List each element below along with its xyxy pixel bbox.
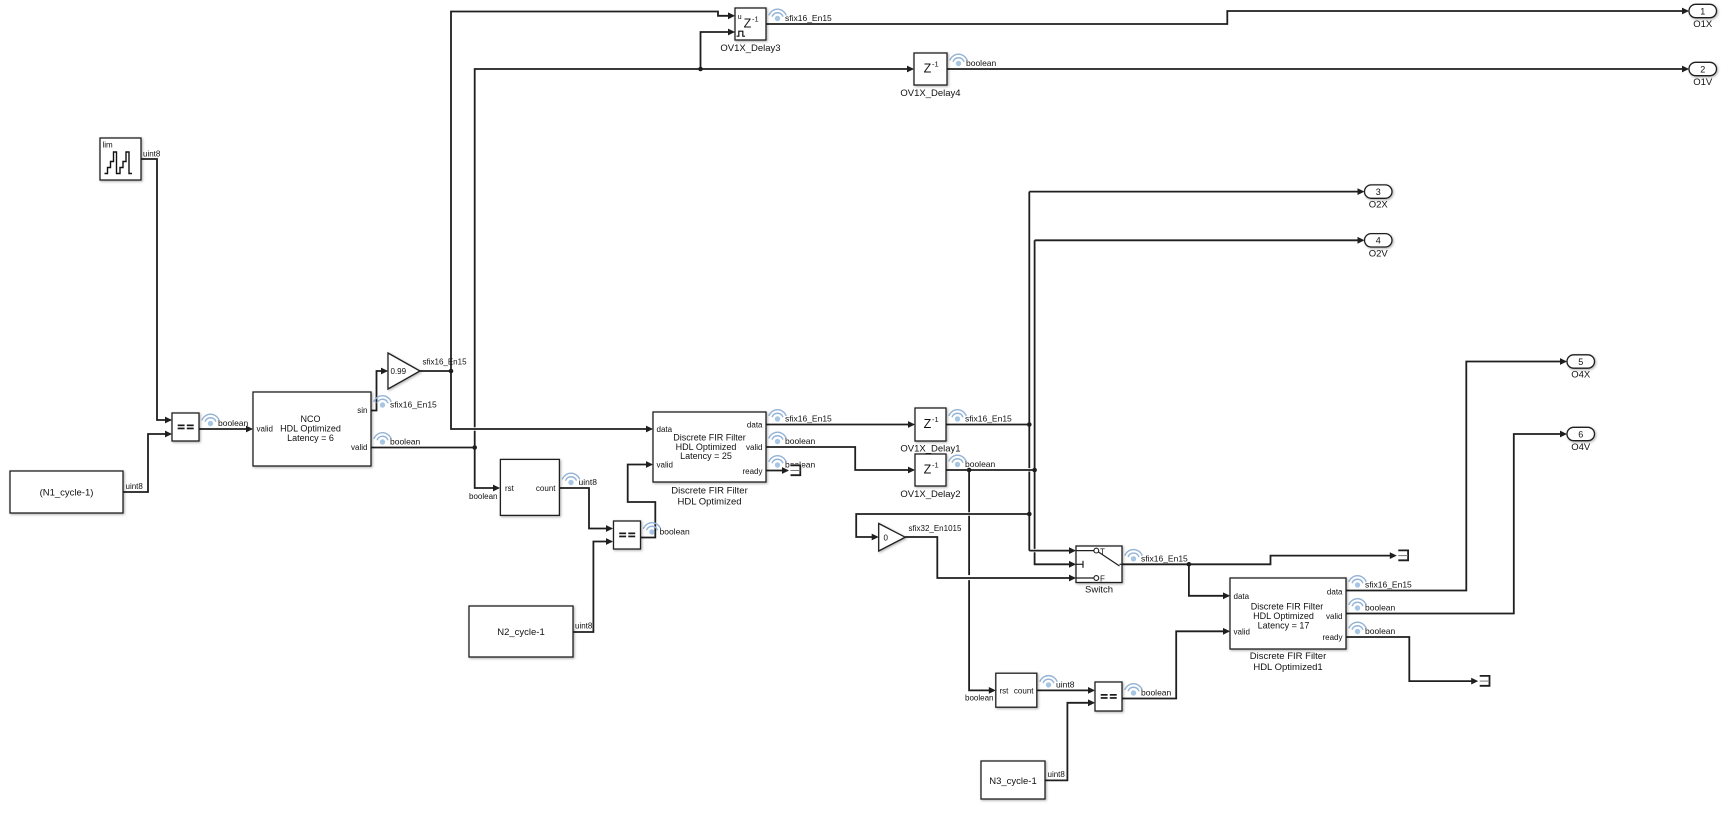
svg-text:Latency = 25: Latency = 25 [680, 451, 732, 461]
source block lim (counter limited) [100, 138, 141, 180]
wire lim output to compare EQ1 input 1 (uint8) [141, 150, 172, 424]
svg-text:sfix32_En1015: sfix32_En1015 [909, 524, 962, 533]
svg-text:ready: ready [1322, 633, 1342, 642]
wire gain G1 output sfix16_En15 net to OV1X_Delay3 u and FIR1 data [420, 12, 735, 433]
svg-text:0: 0 [884, 534, 889, 543]
svg-text:uint8: uint8 [579, 477, 598, 487]
svg-text:uint8: uint8 [1056, 680, 1075, 690]
svg-text:sfix16_En15: sfix16_En15 [1365, 580, 1412, 590]
svg-text:F: F [1100, 575, 1105, 584]
svg-text:OV1X_Delay3: OV1X_Delay3 [720, 43, 780, 54]
svg-text:OV1X_Delay4: OV1X_Delay4 [900, 88, 960, 99]
output port 2 O1V [1682, 62, 1717, 88]
svg-text:boolean: boolean [1365, 626, 1396, 636]
output port 1 O1X [1682, 4, 1717, 30]
svg-text:HDL Optimized: HDL Optimized [280, 424, 341, 434]
wire constant N3 to compare EQ3 input 2 (uint8) [1045, 699, 1095, 780]
svg-text:2: 2 [1700, 64, 1705, 74]
svg-text:sin: sin [357, 406, 367, 415]
label under FIR2 block [1250, 651, 1327, 673]
svg-text:Discrete FIR Filter: Discrete FIR Filter [1250, 651, 1327, 662]
label under OV1X_Delay4 [900, 88, 960, 99]
svg-text:boolean: boolean [965, 694, 993, 703]
wire FIR2 valid output boolean to output port 6 O4V [1346, 434, 1566, 614]
svg-text:data: data [657, 425, 673, 434]
delay block OV1X_Delay2 [915, 454, 946, 486]
svg-text:uint8: uint8 [1048, 770, 1066, 779]
svg-text:sfix16_En15: sfix16_En15 [785, 414, 832, 424]
svg-text:5: 5 [1578, 357, 1583, 367]
svg-text:HDL Optimized1: HDL Optimized1 [1253, 662, 1322, 673]
svg-text:count: count [536, 484, 556, 493]
switch block [1076, 546, 1122, 584]
svg-text:Discrete FIR Filter: Discrete FIR Filter [1251, 601, 1324, 611]
svg-text:(N1_cycle-1): (N1_cycle-1) [40, 488, 94, 499]
svg-text:data: data [747, 421, 763, 430]
svg-text:boolean: boolean [1365, 603, 1396, 613]
svg-text:valid: valid [657, 461, 673, 470]
svg-text:boolean: boolean [966, 58, 997, 68]
svg-text:sfix16_En15: sfix16_En15 [965, 414, 1012, 424]
wire counter2 count uint8 to compare EQ3 input 1 [1037, 676, 1095, 694]
svg-text:valid: valid [1326, 612, 1342, 621]
wire compare EQ3 output boolean to FIR2 valid input [1122, 628, 1230, 699]
svg-text:count: count [1014, 687, 1034, 696]
svg-text:NCO: NCO [301, 414, 321, 424]
svg-text:Z: Z [924, 417, 932, 431]
compare-to-constant block EQ2 == [614, 521, 641, 549]
output port 3 O2X [1358, 185, 1393, 211]
delay block OV1X_Delay1 [915, 408, 946, 441]
svg-text:Latency = 17: Latency = 17 [1258, 621, 1310, 631]
wire OV1X_Delay4 output boolean to output port 2 O1V [947, 54, 1688, 69]
svg-text:sfix16_En15: sfix16_En15 [1141, 553, 1188, 563]
svg-text:HDL Optimized: HDL Optimized [1253, 611, 1314, 621]
svg-text:rst: rst [1000, 687, 1010, 696]
svg-text:-1: -1 [932, 415, 939, 424]
svg-text:Z: Z [924, 62, 932, 76]
label under switch block [1085, 585, 1113, 596]
svg-text:N3_cycle-1: N3_cycle-1 [989, 776, 1037, 787]
wire FIR1 data output sfix16_En15 to OV1X_Delay1 input [766, 410, 915, 428]
svg-text:3: 3 [1376, 187, 1381, 197]
svg-text:valid: valid [351, 443, 367, 452]
label under FIR1 block [671, 485, 748, 507]
svg-text:sfix16_En15: sfix16_En15 [785, 13, 832, 23]
label under OV1X_Delay1 [900, 444, 960, 455]
svg-text:HDL Optimized: HDL Optimized [677, 496, 741, 507]
wire FIR1 valid output boolean to OV1X_Delay2 input [766, 432, 915, 473]
svg-text:OV1X_Delay2: OV1X_Delay2 [900, 489, 960, 500]
wire OV1X_Delay1 output sfix16_En15 net to output port 3, gain G0 and switch T input [856, 192, 1362, 554]
svg-text:uint8: uint8 [143, 150, 161, 159]
svg-text:lim: lim [103, 141, 114, 150]
svg-text:boolean: boolean [785, 436, 816, 446]
constant block N2_cycle-1 [469, 606, 573, 657]
svg-text:valid: valid [1234, 627, 1250, 636]
gain block G0 value 0 [879, 524, 906, 552]
svg-text:sfix16_En15: sfix16_En15 [423, 358, 468, 367]
compare-to-constant block EQ3 == [1095, 682, 1122, 711]
svg-text:-1: -1 [752, 15, 759, 24]
wire compare EQ2 output boolean to FIR1 valid input [628, 461, 690, 537]
label under OV1X_Delay3 [720, 43, 780, 54]
wire NCO valid boolean net to OV1X_Delay4, OV1X_Delay3 enable and counter1 rst [371, 29, 914, 492]
svg-text:O4V: O4V [1571, 442, 1591, 453]
svg-text:O4X: O4X [1571, 370, 1591, 381]
svg-text:boolean: boolean [390, 437, 421, 447]
svg-text:-1: -1 [932, 461, 939, 470]
svg-text:4: 4 [1376, 236, 1381, 246]
counter block C1 (rst/count) [469, 459, 559, 515]
svg-text:data: data [1234, 592, 1250, 601]
svg-text:Latency = 6: Latency = 6 [287, 433, 334, 443]
label under OV1X_Delay2 [900, 489, 960, 500]
wire switch output sfix16_En15 net to terminator T2 and FIR2 data input [1122, 549, 1410, 599]
svg-text:6: 6 [1578, 429, 1583, 439]
wire constant N2 to compare EQ2 input 2 (uint8) [573, 538, 613, 632]
svg-text:O1V: O1V [1693, 77, 1713, 88]
delay block OV1X_Delay3 (enabled) [735, 8, 766, 40]
output port 5 O4X [1560, 355, 1595, 381]
svg-text:boolean: boolean [469, 492, 497, 501]
svg-text:boolean: boolean [660, 527, 691, 537]
wire compare EQ1 output boolean to NCO valid input [199, 414, 253, 432]
wire OV1X_Delay2 output boolean net to output port 4, switch control and counter2 rst [946, 240, 1363, 694]
svg-text:Z: Z [744, 17, 752, 31]
svg-text:Z: Z [924, 463, 932, 477]
constant block N3_cycle-1 [981, 761, 1045, 799]
svg-text:Switch: Switch [1085, 585, 1113, 596]
svg-text:0.99: 0.99 [391, 367, 407, 376]
output port 6 O4V [1560, 427, 1595, 453]
delay block OV1X_Delay4 [914, 53, 947, 85]
svg-text:1: 1 [1700, 6, 1705, 16]
svg-text:u: u [738, 12, 742, 21]
constant block (N1_cycle-1) [10, 471, 123, 513]
wire FIR1 ready output boolean to terminator T1 [766, 456, 816, 477]
svg-text:N2_cycle-1: N2_cycle-1 [497, 627, 545, 638]
NCO HDL Optimized block U1 [253, 392, 371, 466]
wire NCO sin output to gain G1 input [371, 368, 437, 411]
wire gain G0 output sfix32_En1015 to switch F input [905, 524, 1076, 581]
compare-to-constant block EQ1 == [172, 413, 199, 441]
svg-text:data: data [1327, 588, 1343, 597]
svg-text:uint8: uint8 [575, 622, 593, 631]
wire OV1X_Delay3 output to output port 1 O1X [766, 9, 1688, 24]
svg-text:valid: valid [746, 443, 762, 452]
svg-text:ready: ready [742, 467, 762, 476]
svg-text:valid: valid [257, 425, 273, 434]
wire constant N1 to compare EQ1 input 2 (uint8) [123, 431, 172, 492]
counter block C2 (rst/count) [965, 673, 1037, 707]
svg-text:uint8: uint8 [126, 482, 144, 491]
svg-text:boolean: boolean [218, 418, 249, 428]
svg-text:boolean: boolean [1141, 688, 1172, 698]
svg-text:O2X: O2X [1369, 200, 1389, 211]
svg-text:O2V: O2V [1369, 248, 1389, 259]
svg-text:-1: -1 [932, 60, 939, 69]
svg-text:sfix16_En15: sfix16_En15 [390, 400, 437, 410]
svg-text:OV1X_Delay1: OV1X_Delay1 [900, 444, 960, 455]
wire counter1 count uint8 to compare EQ2 input 1 [560, 473, 614, 532]
svg-text:boolean: boolean [965, 459, 996, 469]
gain block G1 value 0.99 [388, 353, 420, 389]
output port 4 O2V [1358, 234, 1393, 260]
wire FIR2 data output sfix16_En15 to output port 5 O4X [1346, 362, 1566, 591]
Discrete FIR Filter HDL Optimized block (latency 25) [653, 412, 766, 482]
svg-text:rst: rst [505, 484, 515, 493]
svg-text:Discrete FIR Filter: Discrete FIR Filter [671, 485, 748, 496]
svg-text:O1X: O1X [1693, 19, 1713, 30]
Discrete FIR Filter HDL Optimized1 block (latency 17) [1230, 578, 1346, 649]
wire FIR2 ready output boolean to terminator T3 [1346, 622, 1491, 687]
